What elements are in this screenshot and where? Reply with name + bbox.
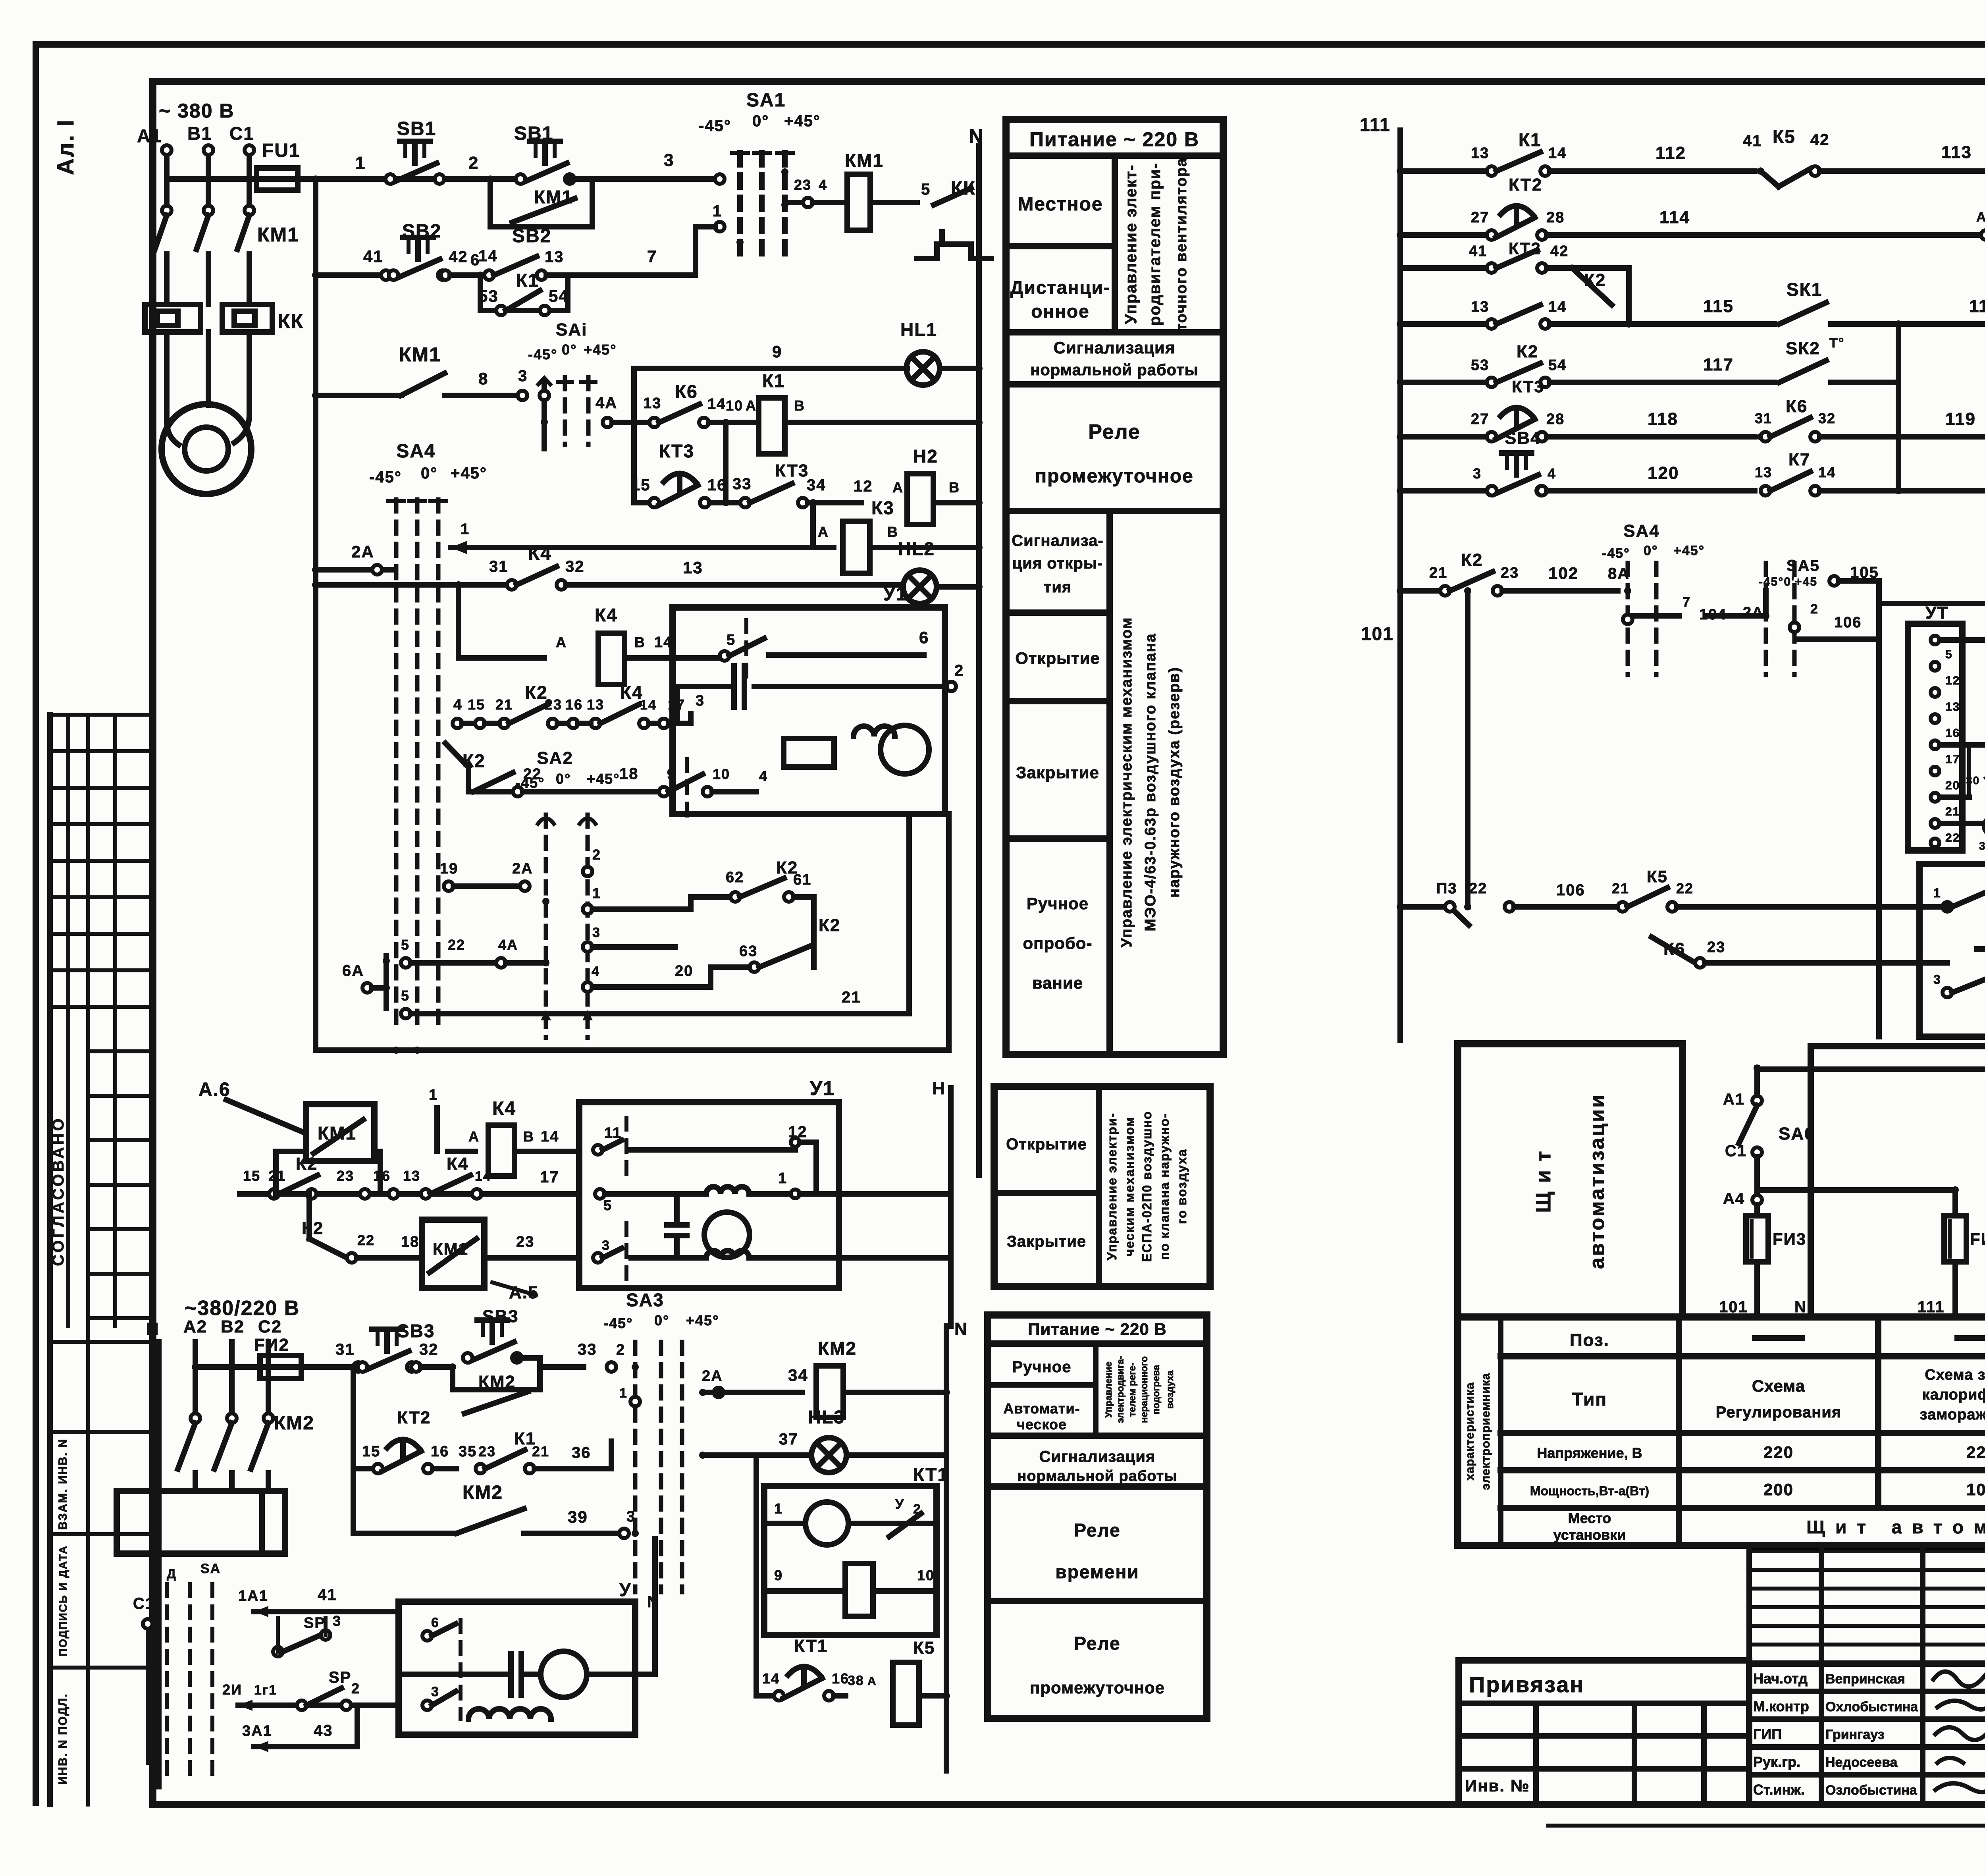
svg-text:С2: С2 [258,1317,282,1336]
svg-text:К7: К7 [1788,450,1810,469]
svg-text:времени: времени [1055,1562,1139,1582]
svg-text:17: 17 [668,696,685,713]
svg-text:КТ2: КТ2 [1509,175,1542,195]
svg-text:В2: В2 [221,1317,245,1336]
svg-text:Питание ~ 220 В: Питание ~ 220 В [1028,1320,1166,1338]
svg-text:Регулирования: Регулирования [1716,1404,1842,1421]
svg-text:N: N [969,125,984,147]
svg-text:2А: 2А [702,1368,723,1384]
svg-text:6: 6 [919,628,929,647]
svg-text:Озлобыстина: Озлобыстина [1825,1783,1918,1798]
svg-text:23: 23 [1707,939,1725,956]
svg-text:34: 34 [788,1366,808,1384]
svg-text:1: 1 [778,1170,787,1187]
svg-text:Место: Место [1568,1510,1611,1526]
svg-text:2А: 2А [512,860,533,877]
svg-text:SА: SА [200,1561,221,1576]
svg-text:62: 62 [726,869,744,886]
svg-text:Щ и т: Щ и т [1532,1149,1555,1213]
svg-text:120: 120 [1648,463,1679,483]
svg-text:113: 113 [1941,143,1972,162]
svg-text:0°: 0° [654,1312,669,1328]
svg-text:118: 118 [1648,409,1678,429]
svg-text:К2: К2 [819,916,840,935]
svg-text:54: 54 [1548,357,1567,374]
svg-text:13: 13 [1471,299,1489,315]
svg-text:К4: К4 [492,1098,516,1119]
svg-text:го воздуха: го воздуха [1175,1149,1189,1224]
svg-text:53: 53 [478,287,499,305]
svg-text:33: 33 [732,475,752,493]
svg-text:наружного воздуха (резерв): наружного воздуха (резерв) [1166,667,1183,898]
svg-text:К5: К5 [1647,867,1668,886]
svg-text:111: 111 [1918,1298,1945,1316]
svg-text:3: 3 [602,1238,610,1253]
svg-text:36: 36 [572,1444,591,1461]
svg-text:ческое: ческое [1017,1416,1067,1433]
svg-text:точного вентилятора: точного вентилятора [1173,158,1190,331]
svg-text:-45°: -45° [699,117,731,135]
svg-text:Щит автоматизации: Щит автоматизации [1806,1517,1985,1537]
svg-text:6А: 6А [342,962,364,979]
svg-text:FU1: FU1 [262,140,301,161]
svg-text:В: В [523,1128,534,1145]
svg-text:17: 17 [540,1168,559,1186]
svg-text:102: 102 [1548,564,1578,582]
svg-text:2: 2 [616,1342,625,1358]
svg-text:14: 14 [478,247,498,265]
svg-text:НL2: НL2 [898,538,935,559]
svg-text:5: 5 [401,987,410,1004]
svg-text:2: 2 [351,1680,360,1697]
svg-text:13: 13 [545,248,564,266]
svg-text:20: 20 [675,963,693,979]
svg-text:14: 14 [475,1169,491,1184]
svg-text:установки: установки [1553,1527,1626,1543]
svg-text:HL3: HL3 [808,1407,845,1427]
svg-text:41: 41 [1469,243,1487,260]
svg-text:К4: К4 [447,1154,468,1174]
svg-text:4А: 4А [498,937,518,953]
svg-text:101: 101 [1361,623,1394,644]
svg-text:нормальной работы: нормальной работы [1017,1468,1177,1485]
svg-text:Сигнализация: Сигнализация [1039,1448,1156,1465]
svg-text:А: А [556,634,567,650]
svg-text:онное: онное [1031,301,1089,322]
svg-text:22: 22 [1676,880,1694,897]
svg-text:Питание ~ 220 В: Питание ~ 220 В [1029,128,1199,150]
svg-text:SА2: SА2 [537,748,573,768]
svg-text:П3: П3 [1436,880,1457,897]
svg-text:8: 8 [478,369,488,388]
svg-text:телем реге-: телем реге- [1127,1363,1138,1417]
svg-text:5: 5 [401,937,410,953]
svg-text:27: 27 [1471,209,1489,226]
svg-text:К2: К2 [296,1154,318,1174]
svg-text:К2: К2 [1584,270,1606,290]
svg-text:15: 15 [243,1168,260,1184]
svg-text:21: 21 [495,696,513,713]
svg-text:замораживания: замораживания [1920,1406,1985,1423]
svg-text:Вепринская: Вепринская [1825,1672,1905,1687]
svg-text:нерационного: нерационного [1139,1356,1150,1423]
svg-text:К1: К1 [762,370,785,391]
svg-text:2: 2 [954,662,964,679]
svg-text:К6: К6 [1663,939,1685,959]
svg-text:Нач.отд: Нач.отд [1753,1670,1808,1687]
svg-text:автоматизации: автоматизации [1586,1093,1609,1269]
svg-text:220: 220 [1763,1443,1794,1461]
svg-text:КМ2: КМ2 [274,1413,314,1434]
svg-text:SА1: SА1 [746,90,786,111]
svg-text:В: В [794,397,805,414]
svg-text:15: 15 [468,696,485,713]
svg-text:23: 23 [545,696,562,713]
svg-text:Тип: Тип [1572,1389,1607,1409]
svg-text:15: 15 [631,476,651,494]
svg-text:КМ1: КМ1 [845,150,884,171]
svg-text:13: 13 [403,1168,420,1184]
svg-text:Инв. №: Инв. № [1465,1776,1530,1795]
svg-text:28: 28 [1546,209,1565,226]
svg-text:по клапана наружно-: по клапана наружно- [1157,1113,1172,1260]
svg-text:ГИП: ГИП [1753,1726,1782,1742]
svg-text:КТ1: КТ1 [913,1464,948,1485]
svg-text:Т°: Т° [1829,335,1844,351]
svg-text:+45°: +45° [451,465,487,482]
svg-text:КТ1: КТ1 [794,1636,828,1656]
svg-text:41: 41 [318,1586,337,1604]
svg-text:7: 7 [1682,595,1691,610]
svg-text:Автомати-: Автомати- [1003,1400,1080,1417]
svg-text:SВ4: SВ4 [1505,428,1541,448]
svg-text:21: 21 [1945,805,1960,818]
svg-text:опробо-: опробо- [1023,934,1093,952]
svg-text:У1: У1 [810,1077,835,1099]
svg-text:КМ2: КМ2 [478,1372,516,1392]
svg-text:В1: В1 [187,123,212,144]
svg-text:Напряжение, В: Напряжение, В [1537,1445,1642,1461]
svg-text:Мощность,Вт-а(Вт): Мощность,Вт-а(Вт) [1530,1484,1649,1498]
svg-text:КТ3: КТ3 [775,461,809,480]
svg-text:SВ3: SВ3 [482,1307,519,1326]
svg-text:14: 14 [1548,299,1567,315]
svg-text:32: 32 [419,1341,439,1358]
svg-text:FИ4: FИ4 [1970,1230,1985,1248]
svg-text:Реле: Реле [1074,1520,1120,1541]
svg-text:Реле: Реле [1088,420,1141,443]
svg-text:3: 3 [592,925,601,940]
svg-text:нормальной работы: нормальной работы [1030,361,1199,379]
svg-text:6: 6 [431,1615,439,1630]
svg-text:41: 41 [1743,132,1762,150]
svg-text:А: А [818,524,829,540]
svg-text:ЕСПА-02П0 воздушно: ЕСПА-02П0 воздушно [1140,1111,1154,1262]
svg-text:У1: У1 [883,584,908,605]
svg-text:Реле: Реле [1074,1633,1120,1654]
svg-text:35: 35 [459,1443,477,1460]
svg-text:А: А [867,1675,877,1688]
svg-text:ПОДПИСЬ И ДАТА: ПОДПИСЬ И ДАТА [57,1545,69,1656]
svg-text:Схема: Схема [1752,1377,1805,1395]
svg-text:SК1: SК1 [1786,279,1822,300]
svg-text:14: 14 [707,396,726,413]
svg-text:10: 10 [917,1567,935,1583]
svg-text:КТ3: КТ3 [659,441,694,461]
svg-text:4А: 4А [595,394,617,412]
svg-text:А1: А1 [1723,1091,1745,1108]
svg-text:тия: тия [1044,578,1072,596]
svg-text:Сигнализа-: Сигнализа- [1012,532,1103,549]
svg-text:3: 3 [1933,972,1941,987]
svg-text:Охлобыстина: Охлобыстина [1825,1699,1918,1714]
svg-text:SВ2: SВ2 [402,221,441,242]
svg-text:Ручное: Ручное [1027,894,1089,913]
svg-text:Дистанци-: Дистанци- [1010,277,1110,298]
svg-text:У: У [895,1497,904,1512]
svg-text:14: 14 [640,698,657,713]
svg-text:Открытие: Открытие [1015,649,1100,667]
svg-text:Ал. I: Ал. I [53,119,79,175]
svg-text:FИ2: FИ2 [254,1335,289,1355]
svg-text:Открытие: Открытие [1006,1136,1087,1153]
svg-text:0°: 0° [562,341,577,358]
svg-text:Рук.гр.: Рук.гр. [1753,1754,1800,1770]
svg-text:К1: К1 [516,270,539,291]
svg-text:Д: Д [167,1567,177,1581]
svg-text:К2: К2 [302,1219,324,1238]
svg-text:-45°: -45° [528,346,557,362]
svg-text:4: 4 [759,768,768,784]
svg-text:114: 114 [1659,208,1690,227]
svg-text:К4: К4 [528,543,552,564]
svg-text:31: 31 [489,558,509,575]
svg-text:1: 1 [461,521,470,538]
svg-text:А: А [746,397,757,414]
svg-text:А: А [892,479,904,496]
svg-text:3: 3 [696,692,705,709]
svg-text:1: 1 [774,1500,783,1517]
svg-text:42: 42 [449,248,468,266]
svg-text:37: 37 [779,1431,798,1448]
svg-text:3: 3 [431,1684,439,1699]
svg-text:21: 21 [1429,565,1447,581]
svg-text:23: 23 [794,177,811,193]
svg-text:промежуточное: промежуточное [1035,466,1194,487]
svg-text:16: 16 [832,1670,849,1687]
svg-text:2: 2 [1810,602,1819,617]
svg-text:В: В [949,479,960,496]
svg-text:117: 117 [1703,355,1734,374]
svg-text:1: 1 [1933,886,1941,900]
svg-text:14: 14 [1548,145,1567,162]
svg-text:16: 16 [431,1443,449,1460]
svg-text:13: 13 [1945,700,1960,713]
svg-text:N: N [1794,1298,1807,1316]
svg-text:В: В [887,524,898,540]
svg-text:22: 22 [1469,880,1487,897]
svg-text:SВ1: SВ1 [514,123,553,144]
svg-text:115: 115 [1703,297,1734,316]
svg-text:9: 9 [667,766,676,782]
svg-text:К2: К2 [1461,550,1483,570]
svg-text:34: 34 [807,476,826,494]
svg-text:-45°: -45° [369,469,402,486]
svg-text:63: 63 [739,943,757,960]
svg-text:61: 61 [793,871,811,888]
svg-text:калорифера-от: калорифера-от [1922,1386,1985,1403]
svg-text:3: 3 [1473,465,1482,482]
svg-text:10: 10 [726,397,743,414]
svg-text:33: 33 [578,1341,597,1358]
svg-text:1: 1 [592,885,601,901]
svg-text:21: 21 [532,1443,549,1460]
svg-text:SК2: SК2 [1786,339,1820,358]
svg-text:КК: КК [278,310,304,332]
svg-text:А1: А1 [137,125,162,146]
svg-text:9: 9 [774,1567,783,1583]
svg-text:НL1: НL1 [900,319,937,340]
svg-text:воздуха: воздуха [1165,1370,1176,1409]
svg-text:+45°: +45° [584,341,617,358]
svg-text:22: 22 [357,1232,375,1248]
svg-text:10: 10 [713,766,730,782]
svg-text:КМ1: КМ1 [257,224,299,246]
svg-text:Н2: Н2 [913,446,938,467]
svg-text:23: 23 [1501,565,1519,581]
svg-text:А4: А4 [1723,1190,1745,1207]
svg-text:13: 13 [587,696,604,713]
svg-text:200: 200 [1763,1480,1794,1499]
svg-text:К5: К5 [1773,126,1796,147]
svg-text:Н: Н [932,1079,946,1098]
svg-text:электроприемника: электроприемника [1479,1373,1492,1490]
svg-text:4: 4 [1548,465,1556,482]
svg-text:+45°: +45° [1673,543,1705,558]
svg-text:+45°: +45° [587,771,620,787]
svg-text:SА3: SА3 [626,1290,664,1310]
svg-text:3: 3 [664,150,674,170]
svg-text:Схема защиты: Схема защиты [1925,1367,1985,1383]
svg-text:22: 22 [1945,831,1960,844]
svg-text:У: У [619,1579,632,1600]
svg-text:31: 31 [1755,410,1772,426]
svg-text:14: 14 [1818,464,1836,480]
svg-text:Ст.инж.: Ст.инж. [1753,1782,1805,1798]
svg-text:SА4: SА4 [396,441,436,462]
svg-text:N: N [146,1319,160,1339]
svg-text:20: 20 [1945,779,1960,792]
svg-text:106: 106 [1834,614,1862,631]
svg-text:К6: К6 [675,381,698,402]
svg-text:А: А [468,1128,480,1145]
svg-text:В: В [634,634,646,650]
svg-text:электродвига-: электродвига- [1115,1356,1126,1423]
svg-text:3: 3 [626,1508,636,1525]
svg-text:-45°: -45° [1602,546,1630,561]
svg-text:32: 32 [565,558,585,575]
svg-text:~ 380 В: ~ 380 В [159,100,235,122]
svg-text:SР: SР [304,1615,326,1631]
svg-text:FИ3: FИ3 [1773,1230,1806,1248]
svg-text:Поз.: Поз. [1570,1330,1609,1350]
svg-text:ИНВ. N ПОДЛ.: ИНВ. N ПОДЛ. [56,1693,69,1785]
svg-text:К3: К3 [871,497,894,518]
svg-text:-45°0'+45: -45°0'+45 [1759,575,1817,588]
svg-text:13: 13 [1471,145,1489,162]
svg-text:3: 3 [333,1613,341,1629]
svg-text:С1: С1 [133,1595,155,1612]
svg-text:17: 17 [1945,753,1960,766]
svg-text:3А1: 3А1 [242,1723,272,1739]
svg-text:КТ3: КТ3 [1512,377,1544,396]
svg-text:0°: 0° [421,465,437,482]
svg-text:12: 12 [854,478,873,495]
svg-text:18: 18 [401,1234,419,1250]
svg-text:1: 1 [429,1087,438,1103]
svg-text:А2: А2 [183,1317,207,1336]
svg-text:21: 21 [842,989,861,1006]
svg-text:Закрытие: Закрытие [1016,763,1099,782]
svg-text:характеристика: характеристика [1463,1382,1476,1480]
svg-text:1: 1 [713,202,722,220]
svg-text:К1: К1 [1519,129,1542,150]
svg-text:Грингауз: Грингауз [1825,1727,1885,1742]
svg-text:-45°: -45° [515,775,545,791]
svg-text:подогрева: подогрева [1151,1365,1162,1414]
svg-text:23: 23 [337,1168,354,1184]
svg-text:16: 16 [1945,727,1960,740]
svg-text:ция откры-: ция откры- [1012,555,1103,572]
svg-text:4: 4 [592,964,600,979]
svg-text:118: 118 [1969,297,1985,316]
svg-text:16: 16 [565,696,583,713]
svg-text:54: 54 [549,287,569,305]
svg-text:39: 39 [568,1508,588,1526]
svg-text:12: 12 [1945,674,1960,687]
svg-text:Недосеева: Недосеева [1825,1755,1898,1770]
svg-text:Закрытие: Закрытие [1007,1233,1086,1250]
svg-text:2А: 2А [351,542,374,561]
svg-text:111: 111 [1360,114,1391,135]
svg-text:Сигнализация: Сигнализация [1054,338,1176,357]
svg-text:КМ1: КМ1 [399,343,441,366]
svg-text:4: 4 [819,177,827,193]
svg-text:КМ2: КМ2 [463,1482,503,1503]
svg-text:промежуточное: промежуточное [1030,1678,1165,1697]
svg-text:9: 9 [772,342,782,361]
svg-text:Управление элект-: Управление элект- [1122,164,1140,324]
svg-text:13: 13 [683,558,703,577]
svg-text:К4: К4 [595,605,618,625]
svg-text:14: 14 [541,1128,559,1145]
svg-text:Привязан: Привязан [1469,1672,1584,1697]
svg-text:Местное: Местное [1018,194,1103,215]
svg-text:СОГЛАСОВАНО: СОГЛАСОВАНО [50,1116,67,1266]
svg-text:Ручное: Ручное [1012,1358,1072,1376]
svg-text:32: 32 [1818,410,1836,426]
svg-text:Управление: Управление [1103,1361,1114,1418]
svg-text:С1: С1 [1725,1142,1747,1160]
svg-text:КМ1: КМ1 [534,187,573,207]
svg-text:ВЗАМ. ИНВ. N: ВЗАМ. ИНВ. N [56,1438,69,1530]
svg-text:1: 1 [355,153,366,173]
svg-text:SР: SР [329,1669,351,1686]
svg-text:18: 18 [619,765,639,783]
svg-text:15: 15 [362,1443,380,1460]
svg-text:0°: 0° [1644,543,1658,558]
svg-text:100: 100 [1966,1480,1985,1499]
